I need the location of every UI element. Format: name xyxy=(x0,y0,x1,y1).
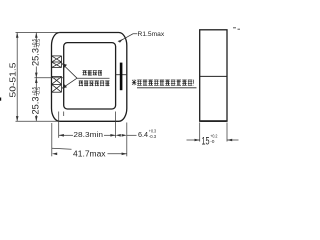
svg-text:-0.5: -0.5 xyxy=(36,87,42,96)
svg-text:25.3: 25.3 xyxy=(31,97,41,115)
svg-text:+0.2: +0.2 xyxy=(210,134,218,140)
svg-text:6.4: 6.4 xyxy=(138,130,148,139)
svg-text:-0.3: -0.3 xyxy=(149,134,157,140)
svg-text:50-51.5: 50-51.5 xyxy=(9,62,18,98)
svg-text:28.3min: 28.3min xyxy=(73,132,103,139)
svg-text:R1.5max: R1.5max xyxy=(138,31,165,38)
svg-text:15: 15 xyxy=(202,136,210,148)
svg-text:-0.5: -0.5 xyxy=(36,39,42,48)
svg-text:41.7max: 41.7max xyxy=(73,150,106,159)
svg-text:-0: -0 xyxy=(210,139,215,145)
svg-text:25.3: 25.3 xyxy=(31,48,41,66)
svg-text:+0.3: +0.3 xyxy=(149,128,157,134)
